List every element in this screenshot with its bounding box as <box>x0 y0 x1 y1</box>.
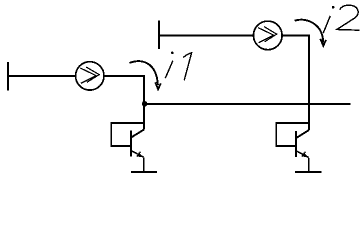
arrowhead i2 <box>320 39 326 46</box>
current source I2 inner chevron <box>264 27 277 42</box>
Q1 emitter arrowhead <box>137 152 143 157</box>
label i1 : letter i dot <box>171 52 174 55</box>
Q2 emitter arrowhead <box>302 152 308 157</box>
Q2 emitter wire <box>308 158 310 172</box>
node junction dot <box>142 101 148 107</box>
current source I2 outer chevron <box>258 28 274 43</box>
arrowhead i1 <box>155 82 161 89</box>
label i1 : digit 1 <box>183 53 191 81</box>
current source I1 outer chevron <box>80 68 96 83</box>
current source I2 circle <box>253 21 282 50</box>
Q1 collector diagonal <box>132 130 144 138</box>
curved arrow i1 <box>130 61 158 85</box>
label i2 : digit 2 <box>337 5 360 30</box>
wire I2 to corner and down to Q2 <box>282 35 309 130</box>
wire I1 to corner <box>104 76 144 104</box>
current source I1 inner chevron <box>86 67 99 82</box>
Q2 emitter arrowhead barb <box>302 152 306 157</box>
terminal P2 (upper input port) <box>158 21 160 49</box>
Q2 base-collector loop wire <box>276 123 309 146</box>
wire P2 to current source I2 <box>159 34 254 36</box>
wire P1 to current source I1 <box>8 75 76 77</box>
ground G2 <box>295 171 322 173</box>
Q1 base-collector loop wire <box>111 123 144 146</box>
label i2 : letter i dot <box>332 6 335 9</box>
terminal P1 (left input port) <box>7 62 9 91</box>
Q1 emitter arrowhead barb <box>137 152 141 157</box>
Q2 emitter diagonal <box>296 151 309 158</box>
label i1 : letter i stem <box>165 61 173 79</box>
curved arrow i2 <box>295 20 324 43</box>
transistor Q2 collector diagonal <box>297 130 309 138</box>
node wire (horizontal bus) <box>144 103 351 105</box>
ground G1 <box>131 171 157 173</box>
label i2 : letter i stem <box>323 16 330 33</box>
Q1 emitter diagonal <box>131 151 144 158</box>
Q1 emitter wire <box>143 157 145 172</box>
current source I1 circle <box>76 62 104 90</box>
transistor Q2 base bar <box>295 131 297 157</box>
transistor Q1 base bar <box>130 131 132 157</box>
transistor Q1 collector wire <box>143 104 145 130</box>
